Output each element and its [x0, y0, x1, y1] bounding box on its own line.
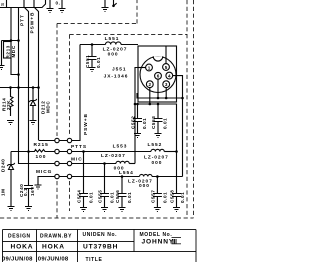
ground C551	[89, 68, 96, 72]
svg-text:4: 4	[168, 73, 171, 78]
svg-text:000: 000	[108, 51, 119, 57]
svg-text:C558: C558	[170, 190, 175, 203]
diode D212 zener	[29, 88, 37, 121]
ground C552	[134, 134, 141, 138]
node S label	[0, 2, 5, 6]
connector J551 box	[138, 46, 177, 102]
wire R213 top	[2, 40, 19, 42]
svg-text:5: 5	[165, 65, 168, 70]
dashed outer box	[0, 0, 194, 218]
wire pin5 stub	[165, 46, 167, 64]
dashed outer left	[56, 24, 58, 219]
connector J551 circle	[140, 57, 176, 93]
pin 3	[163, 81, 170, 88]
label PSW+B inner	[83, 113, 89, 135]
wire pin1 stub	[138, 67, 146, 69]
wire PSW+B vertical	[34, 0, 39, 140]
svg-text:UNIDEN No.: UNIDEN No.	[83, 232, 118, 238]
svg-text:2: 2	[149, 82, 152, 87]
capacitor stub top x=62	[61, 0, 63, 8]
svg-text:0.01: 0.01	[162, 192, 167, 203]
wire stub top-left	[6, 0, 8, 8]
svg-text:MIC: MIC	[71, 156, 83, 162]
svg-text:0.01: 0.01	[89, 192, 94, 203]
wire R213 bottom	[11, 58, 19, 75]
connector circles left column	[55, 138, 59, 142]
resistor R215 on PTTS row	[11, 150, 55, 153]
dashed outer bottom	[0, 217, 194, 219]
svg-text:HOKA: HOKA	[11, 243, 34, 250]
svg-text:0.1: 0.1	[23, 188, 28, 196]
wire MIC row	[72, 163, 116, 165]
ground stub	[0, 66, 5, 70]
svg-text:DESIGN: DESIGN	[8, 233, 31, 239]
value label top	[56, 1, 61, 6]
wire L551 row	[80, 44, 138, 46]
dashed inner right	[186, 0, 188, 218]
capacitor C551	[91, 43, 94, 46]
svg-text:MDC: MDC	[46, 101, 51, 113]
svg-text:JOHNNY: JOHNNY	[142, 238, 175, 245]
svg-text:HOKA: HOKA	[42, 243, 65, 250]
wire PTT vertical	[24, 0, 29, 186]
svg-text:L551: L551	[105, 36, 120, 42]
inductor L553	[116, 161, 129, 163]
capacitor stub top x=50	[49, 0, 51, 8]
svg-text:1M: 1M	[1, 188, 6, 196]
inductor L551	[106, 42, 121, 45]
label PSW+B	[29, 12, 35, 34]
ground R214	[7, 121, 14, 125]
svg-text:0.01: 0.01	[110, 192, 115, 203]
wire MICG row	[72, 176, 183, 178]
wire pin4 route	[173, 76, 183, 98]
svg-text:0.01: 0.01	[180, 192, 185, 203]
svg-text:L552: L552	[148, 142, 163, 148]
node stub x=113	[113, 0, 115, 6]
svg-text:C556: C556	[115, 190, 120, 203]
svg-text:S: S	[0, 2, 5, 6]
ground x=62	[59, 9, 66, 13]
svg-text:R213: R213	[5, 45, 10, 58]
label MIC	[71, 156, 83, 162]
capacitor C553	[154, 104, 163, 133]
wire pin2 drop	[149, 88, 151, 104]
capacitor C558	[172, 152, 181, 208]
pin 1	[146, 64, 153, 71]
title block	[3, 230, 197, 262]
inductor L554	[140, 174, 152, 176]
svg-text:LZ-0207: LZ-0207	[144, 154, 169, 160]
wire grounded stub	[1, 41, 3, 66]
wire bus A	[137, 93, 183, 177]
svg-text:C551: C551	[85, 55, 90, 68]
ground D240	[8, 207, 15, 211]
svg-text:09/JUN/08: 09/JUN/08	[2, 256, 33, 262]
capacitor C557	[153, 177, 162, 208]
capacitor C555	[100, 164, 109, 208]
resistor R213 box style	[10, 8, 12, 42]
capacitor C554	[79, 152, 88, 208]
wire mic-bias vertical	[19, 8, 56, 164]
svg-text:PSW+B: PSW+B	[83, 113, 89, 135]
wire PTTS row	[72, 151, 151, 153]
svg-text:000: 000	[139, 183, 150, 189]
svg-text:100: 100	[36, 154, 47, 160]
svg-text:MODEL No.: MODEL No.	[140, 232, 173, 238]
dashed inner top	[70, 34, 188, 36]
ground D212	[30, 121, 37, 125]
svg-text:6: 6	[157, 74, 160, 79]
resistor R214	[11, 88, 14, 117]
svg-text:PSW+B: PSW+B	[29, 12, 35, 34]
label PTT	[19, 14, 25, 26]
svg-text:MDC: MDC	[11, 45, 16, 57]
svg-text:UT379BH: UT379BH	[83, 244, 118, 251]
inductor L552	[151, 149, 164, 151]
svg-text:16V: 16V	[30, 186, 35, 196]
capacitor C552	[133, 104, 142, 133]
wire PSW+B row y=87.5	[0, 87, 39, 89]
label PTTS	[71, 144, 87, 150]
wire top ground bus	[0, 0, 46, 8]
dashed inner left	[69, 35, 71, 212]
diode D240 zener	[7, 152, 15, 207]
ground x=105	[102, 8, 109, 12]
svg-text:22K: 22K	[6, 100, 11, 110]
svg-text:000: 000	[152, 160, 163, 166]
pin 6	[155, 72, 162, 79]
wire PSW+B to connector	[39, 140, 56, 142]
svg-text:J551: J551	[112, 67, 126, 73]
pin 5	[163, 64, 170, 71]
wires between circle pairs	[59, 141, 67, 177]
svg-text:0.01: 0.01	[142, 118, 147, 129]
ground MICG	[35, 185, 42, 189]
svg-text:L553: L553	[113, 143, 128, 149]
svg-text:0.01: 0.01	[96, 57, 101, 68]
wire MICG row left	[38, 177, 55, 185]
svg-text:C554: C554	[77, 190, 82, 203]
wire stub x=105	[104, 0, 106, 7]
wire PSW+B jog into box	[72, 45, 80, 141]
dashed outer right	[193, 0, 195, 218]
pin 4	[166, 72, 173, 79]
ground C240	[25, 207, 32, 211]
ground C553	[155, 134, 162, 138]
svg-text:DRAWN.BY: DRAWN.BY	[40, 233, 72, 239]
svg-text:C552: C552	[131, 116, 136, 129]
svg-text:LZ-0207: LZ-0207	[101, 153, 126, 159]
svg-text:1: 1	[148, 65, 151, 70]
svg-text:0.01: 0.01	[163, 118, 168, 129]
pin 2	[146, 81, 153, 88]
svg-text:C557: C557	[151, 190, 156, 203]
junction mic-bias top	[17, 39, 20, 42]
svg-text:3: 3	[165, 82, 168, 87]
svg-text:JX-1346: JX-1346	[104, 74, 129, 80]
svg-text:MICG: MICG	[36, 169, 52, 175]
svg-text:C553: C553	[151, 116, 156, 129]
wire pin6 drop	[157, 79, 159, 98]
junction R213 top	[10, 39, 13, 42]
svg-text:R215: R215	[34, 142, 49, 148]
svg-text:0.01: 0.01	[127, 192, 132, 203]
dashed outer top	[57, 0, 137, 24]
wire pin3 drop	[165, 88, 167, 98]
wire bus B	[135, 104, 177, 152]
svg-text:PTTS: PTTS	[71, 144, 87, 150]
svg-text:0.: 0.	[56, 1, 61, 6]
wire MIC riser to pin1	[135, 68, 146, 164]
connector circles right column	[67, 138, 71, 142]
svg-text:TITLE: TITLE	[86, 257, 103, 262]
svg-text:D240: D240	[1, 159, 6, 172]
svg-text:L554: L554	[119, 170, 134, 176]
svg-text:C555: C555	[98, 190, 103, 203]
svg-text:PTT: PTT	[19, 14, 25, 26]
connector notch	[153, 56, 163, 61]
ground x=50	[47, 9, 54, 13]
svg-text:09/JUN/08: 09/JUN/08	[38, 256, 69, 262]
capacitor C556	[118, 177, 127, 208]
capacitor C240	[24, 186, 33, 207]
